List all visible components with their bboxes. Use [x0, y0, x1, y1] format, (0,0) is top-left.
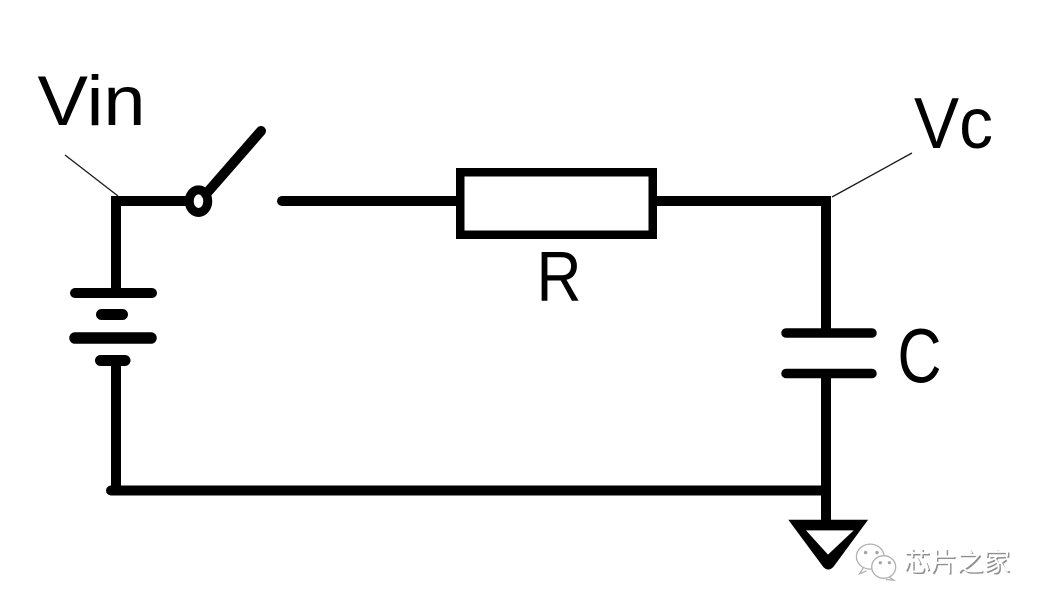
capacitor C bottom plate — [786, 369, 872, 379]
svg-text:C: C — [898, 314, 942, 400]
watermark text 芯片之家 — [905, 548, 1010, 573]
battery V1 short plate (upper) — [102, 309, 123, 320]
wire: input node corner (battery top to switch pole) — [116, 201, 186, 293]
wire: rounded left end cap of bottom rail — [106, 486, 116, 496]
watermark text shadow 芯片之家 — [906, 550, 1011, 575]
capacitor C top plate — [786, 328, 872, 338]
watermark logo: front chat bubble — [872, 556, 896, 581]
svg-text:Vin: Vin — [38, 61, 146, 140]
battery V1 short plate (negative, bottom) — [101, 355, 126, 366]
leader line from Vin label to input node — [65, 155, 118, 196]
resistor R body — [460, 172, 653, 235]
svg-text:R: R — [537, 237, 582, 316]
switch SW1 pole contact circle — [189, 190, 208, 213]
wire: switch throw to resistor left lead — [282, 196, 458, 206]
battery V1 long plate (positive, top) — [75, 288, 152, 298]
watermark logo: front bubble eyes — [879, 561, 891, 564]
battery V1 long plate (lower) — [75, 332, 151, 344]
wire: capacitor bottom plate down to ground — [821, 374, 831, 524]
switch SW1 lever (open) — [206, 131, 261, 194]
wire: bottom return rail — [111, 486, 831, 496]
svg-text:Vc: Vc — [914, 84, 993, 164]
watermark logo: back bubble eyes — [864, 551, 879, 554]
wire: resistor right lead to node Vc corner, down to capacitor top — [655, 201, 826, 333]
wire: battery negative down to bottom rail — [111, 361, 121, 491]
leader line from Vc label to node Vc — [832, 153, 912, 197]
ground symbol — [788, 520, 868, 570]
watermark logo: back chat bubble — [856, 544, 884, 574]
